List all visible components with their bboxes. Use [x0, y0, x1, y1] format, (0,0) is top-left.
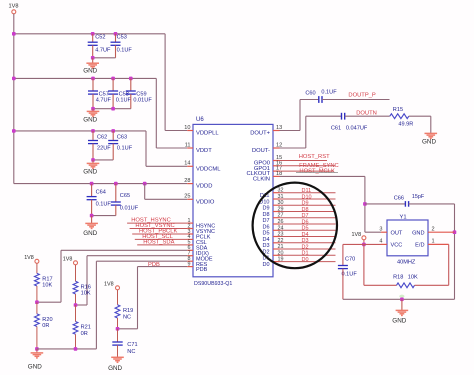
wire MODE jog to R16 [76, 304, 88, 306]
svg-text:29: 29 [278, 207, 284, 213]
ground g3 [87, 163, 100, 168]
junction C58 top [111, 77, 115, 81]
svg-text:GND: GND [108, 365, 122, 372]
svg-text:22: 22 [278, 238, 284, 244]
wire to C60 [300, 99, 319, 101]
junction C62 top [91, 129, 95, 133]
svg-text:HOST_RST: HOST_RST [299, 154, 330, 160]
wire PDB jog to R19 [118, 328, 138, 330]
wire pin13 up [299, 100, 301, 131]
lead C53 bottom [115, 45, 117, 58]
lead C59 bottom [130, 94, 132, 109]
svg-text:NC: NC [127, 349, 135, 355]
pin 27 D7 [273, 217, 280, 219]
wire DOUTP_P net [322, 99, 390, 101]
wire C65 jog to C64 [92, 215, 116, 217]
junction Y1 GND pin rail [453, 230, 457, 234]
capacitor C65 [111, 202, 121, 205]
svg-text:9: 9 [188, 261, 191, 267]
wire to C66 [365, 203, 406, 205]
svg-text:DOUT+: DOUT+ [250, 131, 270, 137]
svg-text:24: 24 [278, 225, 284, 231]
wire DOUTN net [345, 115, 390, 117]
capacitor C57 [88, 91, 98, 94]
wire MODE down [86, 256, 88, 305]
svg-text:15pF: 15pF [412, 194, 425, 200]
svg-text:D7: D7 [262, 218, 269, 224]
svg-text:19: 19 [278, 257, 284, 263]
node artifact green smudge [399, 295, 404, 298]
svg-text:0R: 0R [81, 331, 88, 337]
pin 6 ID(X) [187, 249, 193, 251]
svg-text:11: 11 [185, 142, 191, 148]
wire rail1 horizontal [14, 33, 165, 35]
pin 23 D4 [273, 236, 280, 238]
svg-text:0.1UF: 0.1UF [342, 272, 358, 278]
svg-text:4.7UF: 4.7UF [95, 48, 111, 54]
resistor R17 [35, 273, 40, 286]
svg-text:DOUTP_P: DOUTP_P [348, 92, 376, 98]
lead C57 top [92, 78, 94, 91]
svg-text:DOUT-: DOUT- [252, 148, 270, 154]
svg-text:GND: GND [83, 68, 97, 75]
stub 1V8 Y1 [363, 240, 365, 245]
svg-text:4: 4 [379, 239, 382, 245]
lead C65 top [115, 184, 117, 202]
resistor R19 [115, 305, 120, 318]
lead C64 bottom [91, 200, 93, 216]
svg-text:0.1UF: 0.1UF [117, 48, 133, 54]
pin 31 D10 [273, 198, 280, 200]
svg-text:D3: D3 [262, 243, 269, 249]
svg-text:C60: C60 [305, 91, 315, 97]
pin 9 PDB [187, 266, 193, 268]
wire rail4 horizontal to VDDD [14, 183, 188, 185]
svg-text:10K: 10K [81, 291, 91, 297]
wire HOST_HSYNC [127, 222, 187, 224]
pin 30 D9 [273, 204, 280, 206]
resistor R18 [397, 283, 415, 288]
svg-text:3: 3 [379, 226, 382, 232]
svg-text:49.9R: 49.9R [398, 121, 413, 127]
capacitor C63 [108, 141, 118, 144]
pin 5 SDA [187, 244, 193, 246]
svg-text:D10: D10 [302, 194, 312, 200]
stub to gnd3 [92, 160, 94, 163]
stub to gnd2 [92, 109, 94, 112]
svg-text:1V8: 1V8 [24, 255, 34, 261]
capacitor C60 [319, 96, 322, 103]
svg-text:DOUTN: DOUTN [356, 111, 377, 117]
lead C71 top [117, 329, 119, 342]
wire rail3 horizontal [14, 130, 146, 132]
junction C64 top [90, 182, 94, 186]
lead R17 top [36, 263, 38, 273]
lead R20 bottom [36, 327, 38, 349]
wire R15 to gnd corner [409, 115, 431, 117]
svg-text:21: 21 [278, 244, 284, 250]
resistor R20 [35, 314, 40, 327]
capacitor C61 [342, 113, 345, 120]
svg-text:GND: GND [392, 317, 406, 324]
pin 20 D1 [273, 254, 280, 256]
svg-text:VDDIO: VDDIO [196, 199, 215, 205]
lead C65 bottom [115, 205, 117, 216]
wire 1V8 down to R18 [363, 244, 365, 285]
pin 18 CLKIN [273, 175, 280, 177]
power symbol 1V8 R17 [35, 259, 39, 263]
svg-text:GND: GND [83, 168, 97, 175]
wire OUT to CLKIN drop [365, 231, 381, 233]
svg-text:23: 23 [278, 232, 284, 238]
svg-text:C65: C65 [120, 193, 130, 199]
junction C62 gnd [91, 158, 95, 162]
wire to pin11 [156, 147, 187, 149]
pin 17 CLKOUT [273, 170, 280, 172]
power symbol 1V8 R19 [116, 286, 120, 290]
wire pin12 up [305, 116, 307, 148]
wire HOST_PBCLK [132, 233, 187, 235]
wire IDX jog to R17 [37, 301, 61, 303]
lead R19 bottom [117, 318, 119, 329]
junction C52 top [91, 32, 95, 36]
lead R21 top [75, 305, 77, 322]
pin 29 D8 [273, 211, 280, 213]
svg-text:GND: GND [422, 139, 436, 146]
junction R17 R20 [35, 300, 39, 304]
wire down to gnd [430, 116, 432, 133]
svg-text:25: 25 [184, 194, 190, 200]
svg-text:D8: D8 [302, 207, 309, 213]
wire artifact gray [296, 172, 338, 174]
lead C58 top [112, 78, 114, 91]
svg-text:PDB: PDB [148, 262, 160, 268]
svg-text:14: 14 [184, 161, 190, 167]
capacitor C59 [126, 91, 136, 94]
svg-text:32: 32 [278, 188, 284, 194]
junction Y1 gnd [400, 298, 404, 302]
lead C62 bottom [92, 144, 94, 160]
svg-text:4.7UF: 4.7UF [96, 97, 112, 103]
pin 4 VCC [381, 243, 387, 245]
svg-text:0.1UF: 0.1UF [117, 145, 133, 151]
svg-text:C63: C63 [117, 134, 127, 140]
wire HOST_SCL [135, 238, 188, 240]
svg-text:D2: D2 [302, 244, 309, 250]
svg-text:2: 2 [432, 226, 435, 232]
svg-text:C71: C71 [127, 342, 137, 348]
svg-text:10K: 10K [408, 275, 418, 281]
svg-text:R21: R21 [81, 325, 91, 331]
svg-text:GND: GND [412, 231, 424, 237]
pin 4 CSL [187, 238, 193, 240]
pin 3 PCLK [187, 233, 193, 235]
svg-text:D5: D5 [262, 231, 269, 237]
lead C52 bottom [92, 45, 94, 58]
junction C64 gnd [90, 214, 94, 218]
junction C53 top [114, 32, 118, 36]
lead C52 top [92, 34, 94, 42]
svg-text:C66: C66 [394, 195, 404, 201]
svg-text:NC: NC [123, 315, 131, 321]
lead C57 bottom [92, 94, 94, 109]
svg-text:R19: R19 [123, 308, 133, 314]
svg-text:10: 10 [184, 125, 190, 131]
junction C57 top [91, 77, 95, 81]
power symbol 1V8 R16 [74, 261, 78, 265]
svg-text:C62: C62 [97, 134, 107, 140]
wire C53 jog to C52 [93, 57, 116, 59]
svg-text:GND: GND [28, 363, 42, 370]
junction R21 gnd rail [74, 347, 78, 351]
capacitor C70 [338, 266, 348, 269]
svg-text:D0: D0 [262, 262, 269, 268]
capacitor C66 [405, 201, 408, 207]
wire E/D down [448, 244, 450, 285]
wire C66 to right rail [409, 203, 455, 205]
svg-text:0.1UF: 0.1UF [116, 97, 132, 103]
lead C63 bottom [112, 144, 114, 160]
lead C63 top [112, 131, 114, 141]
wire to pin25 [145, 198, 188, 200]
wire right vertical rail [454, 204, 456, 299]
stub Y1 gnd [401, 299, 403, 310]
svg-text:D6: D6 [302, 219, 309, 225]
ground left chain [31, 353, 44, 358]
svg-text:40MHZ: 40MHZ [397, 259, 416, 265]
wire rail3 drop to VDDCML [145, 131, 147, 166]
lead C53 top [115, 34, 117, 42]
wire rail2 horizontal [14, 77, 157, 79]
svg-text:HOST_SDA: HOST_SDA [143, 240, 174, 246]
stub to gnd4 [91, 216, 93, 224]
svg-text:20: 20 [278, 250, 284, 256]
pin 2 GND [428, 231, 455, 233]
wire g2 bottom jog [93, 108, 131, 110]
pin 28 VDDD [187, 183, 193, 185]
pin 16 GPO1 [273, 165, 280, 167]
svg-text:D9: D9 [262, 206, 269, 212]
wire pin7 MODE [87, 255, 187, 257]
lead C62 top [92, 131, 94, 141]
wire rail2 drop to VDDT [155, 78, 157, 148]
ground C71 [111, 357, 124, 362]
svg-text:1V8: 1V8 [104, 282, 114, 288]
svg-text:0R: 0R [42, 323, 49, 329]
lead R19 top [117, 290, 119, 305]
pin 24 D5 [273, 229, 280, 231]
wire drop to VDDIO [144, 184, 146, 200]
wire to C61 [306, 115, 342, 117]
wire Y1 gnd rail [343, 298, 455, 300]
lead C59 top [130, 78, 132, 91]
svg-text:0.1UF: 0.1UF [96, 201, 112, 207]
pin 14 VDDCML [187, 165, 193, 167]
ground right-top [425, 133, 438, 138]
wire HOST_VSYNC [130, 228, 188, 230]
svg-text:C53: C53 [117, 35, 127, 41]
lead C58 bottom [112, 94, 114, 109]
wire RES down to gnd rail [95, 261, 97, 349]
pin 12 DOUT- [273, 147, 280, 149]
lead R21 bottom [75, 334, 77, 349]
junction C57 gnd [91, 107, 95, 111]
wire pin13 out [280, 130, 301, 132]
svg-text:CLKIN: CLKIN [253, 176, 270, 182]
svg-text:1V8: 1V8 [352, 232, 362, 238]
svg-text:1V8: 1V8 [9, 4, 19, 10]
svg-text:DS90UB933-Q1: DS90UB933-Q1 [194, 281, 232, 287]
wire rail1 drop to VDDPLL [164, 34, 166, 131]
wire HOST_MCLK [280, 170, 335, 172]
wire left vertical rail 1V8 [13, 14, 15, 184]
svg-text:VCC: VCC [391, 243, 403, 249]
ground g1 [86, 63, 99, 68]
lead R20 top [36, 302, 38, 314]
wire pin8 RES [96, 260, 187, 262]
wire pin9 PDB [138, 266, 188, 268]
svg-text:E/D: E/D [415, 243, 424, 249]
power symbol 1V8 [12, 10, 16, 14]
svg-text:22UF: 22UF [97, 145, 111, 151]
lead C70 top [342, 244, 344, 265]
pin 2 VSYNC [187, 228, 193, 230]
junction R16 R21 [74, 303, 78, 307]
lead R16 top [75, 265, 77, 282]
svg-text:0.01UF: 0.01UF [120, 205, 139, 211]
svg-text:U6: U6 [196, 117, 204, 123]
junction R19 C71 [116, 327, 120, 331]
wire IDX down [60, 250, 62, 302]
pin 19 D0 [273, 261, 280, 263]
junction rail3-left [12, 129, 16, 133]
junction rail1-left [12, 32, 16, 36]
capacitor C58 [108, 91, 118, 94]
svg-text:10K: 10K [42, 283, 52, 289]
capacitor C71 [112, 342, 122, 345]
wire C63 jog to C62 [93, 159, 113, 161]
svg-text:Y1: Y1 [400, 215, 407, 221]
svg-text:C70: C70 [345, 257, 355, 263]
svg-text:1V8: 1V8 [63, 257, 73, 263]
pin 15 GPO0 [273, 160, 280, 162]
junction C65 top [114, 182, 118, 186]
ground g4 [85, 223, 98, 228]
node annotation circle around data bus [253, 183, 337, 269]
svg-text:D11: D11 [302, 188, 312, 194]
svg-text:30: 30 [278, 200, 284, 206]
svg-text:C52: C52 [95, 35, 105, 41]
svg-text:0.047UF: 0.047UF [346, 125, 368, 131]
svg-text:PDB: PDB [196, 267, 208, 273]
svg-text:R15: R15 [393, 107, 403, 113]
svg-text:0.01UF: 0.01UF [133, 97, 152, 103]
wire HOST_SDA [137, 244, 187, 246]
svg-text:GND: GND [83, 230, 97, 237]
wire FRAME_SYNC [280, 165, 336, 167]
svg-text:C61: C61 [331, 125, 341, 131]
wire HOST_RST [280, 160, 328, 162]
junction C63 top [111, 129, 115, 133]
svg-text:27: 27 [278, 213, 284, 219]
svg-text:R17: R17 [42, 276, 52, 282]
wire pin6 IDX [61, 249, 187, 251]
wire to pin14 [146, 165, 187, 167]
wire gnd rail [37, 348, 97, 350]
junction rail2-left [12, 77, 16, 81]
svg-text:D8: D8 [262, 212, 269, 218]
svg-text:31: 31 [278, 194, 284, 200]
lead R17 bottom [36, 286, 38, 302]
pin 3 OUT [381, 231, 387, 233]
pin 8 RES [187, 260, 193, 262]
wire pin12 out [280, 147, 306, 149]
svg-text:D0: D0 [302, 257, 309, 263]
capacitor C64 [87, 197, 97, 200]
resistor R16 [73, 281, 78, 294]
svg-text:VDDPLL: VDDPLL [196, 131, 219, 137]
pin 11 VDDT [187, 147, 193, 149]
pin 21 D2 [273, 248, 280, 250]
junction C58 gnd [111, 107, 115, 111]
op-amp U6 serializer box [193, 124, 273, 276]
svg-text:D4: D4 [302, 232, 309, 238]
svg-text:28: 28 [184, 178, 190, 184]
pin 32 D11 [273, 192, 280, 194]
ground g2 [87, 111, 100, 116]
svg-text:D1: D1 [302, 251, 309, 257]
pin 22 D3 [273, 242, 280, 244]
svg-text:OUT: OUT [391, 231, 403, 237]
ground Y1 [396, 310, 409, 315]
svg-text:C64: C64 [96, 189, 106, 195]
wire to pin10 [165, 130, 187, 132]
pin 1 E/D [428, 243, 449, 245]
svg-text:VDDCML: VDDCML [196, 166, 221, 172]
pin 25 VDDIO [187, 198, 193, 200]
svg-text:D4: D4 [262, 237, 269, 243]
svg-text:R20: R20 [42, 317, 52, 323]
pin 26 D6 [273, 223, 280, 225]
svg-text:D6: D6 [262, 224, 269, 230]
svg-text:VDDD: VDDD [196, 184, 212, 190]
resistor R15 [390, 114, 409, 119]
junction C66 tap [363, 202, 367, 206]
junction C59 top [129, 77, 133, 81]
svg-text:D7: D7 [302, 213, 309, 219]
svg-text:D3: D3 [302, 238, 309, 244]
svg-text:26: 26 [278, 219, 284, 225]
junction rail4 VDDIO tap [143, 182, 147, 186]
resistor R21 [73, 322, 78, 335]
lead C64 top [91, 184, 93, 197]
power symbol 1V8 Y1 [362, 236, 366, 240]
pin 10 VDDPLL [187, 130, 193, 132]
junction C52 gnd [91, 56, 95, 60]
wire to R18 [364, 284, 397, 286]
pin 13 DOUT+ [273, 130, 280, 132]
pin 7 MODE [187, 255, 193, 257]
wire VCC row [343, 243, 381, 245]
stub gnd left [36, 349, 38, 353]
wire CLKIN [280, 175, 365, 177]
stub to gnd1 [92, 58, 94, 63]
wire PDB down [137, 267, 139, 329]
capacitor C53 [111, 42, 121, 45]
transistor Y1 oscillator box [387, 220, 428, 256]
svg-text:R18: R18 [393, 275, 403, 281]
svg-text:D5: D5 [302, 226, 309, 232]
